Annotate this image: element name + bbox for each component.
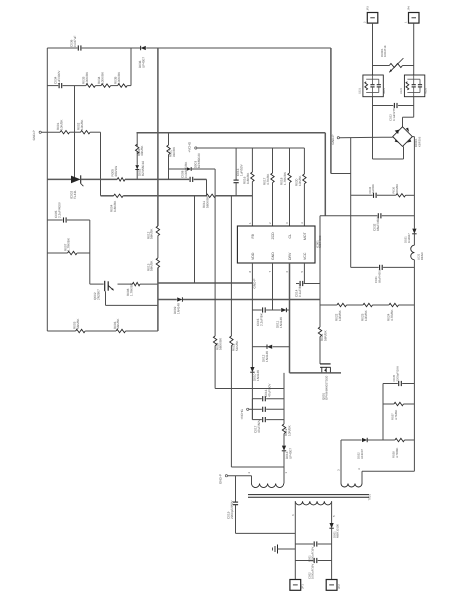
svg-text:1N4148: 1N4148: [279, 317, 283, 328]
wire: [405, 439, 415, 441]
wire: [74, 86, 76, 180]
resistor R008: [126, 282, 140, 296]
svg-text:1.78K/BK: 1.78K/BK: [129, 282, 133, 296]
resistor R035: [113, 71, 127, 87]
capacitor C017: [253, 407, 265, 433]
wire: [266, 419, 284, 421]
wire pin2 stub: [251, 476, 253, 484]
connector JP4: [405, 6, 419, 24]
shunt regulator IC002 TL431: [69, 175, 83, 199]
wire: [90, 283, 104, 285]
wire: [399, 304, 415, 306]
wire: [85, 330, 116, 332]
wire: [136, 152, 138, 165]
transformer T001 primary winding: [252, 484, 284, 488]
pin number 4 xfmr: [357, 468, 361, 470]
wire: [413, 106, 415, 118]
wire bulk row2: [351, 266, 379, 268]
wire GND row: [158, 282, 253, 284]
svg-text:2N2907: 2N2907: [97, 289, 101, 300]
svg-text:1N4148: 1N4148: [256, 370, 260, 381]
resistor R020: [295, 174, 307, 186]
resistor R011: [202, 194, 216, 208]
wire: [95, 85, 101, 87]
resistor R006: [113, 318, 126, 333]
pin number 2: [268, 222, 272, 224]
wire out cap row2: [295, 560, 313, 562]
wire: [82, 47, 141, 49]
resistor R007: [63, 237, 77, 255]
wire RC row: [351, 194, 373, 196]
transformer T001 secondary winding: [295, 501, 331, 505]
wire: [252, 419, 261, 421]
wire DC minus: [339, 136, 392, 139]
svg-text:100K/BK: 100K/BK: [100, 71, 104, 84]
zener diode D002: [135, 161, 144, 176]
capacitor C014: [294, 281, 302, 297]
wire: [127, 85, 131, 87]
pin number 3: [285, 222, 289, 224]
svg-text:68uF/450V: 68uF/450V: [377, 269, 381, 283]
wire: [249, 408, 262, 410]
svg-text:BZX55C20: BZX55C20: [197, 153, 201, 168]
svg-text:C021: C021: [358, 87, 361, 94]
capacitor C015: [256, 307, 265, 326]
wire: [236, 532, 296, 534]
resistor R024: [387, 303, 399, 321]
wire: [169, 168, 187, 170]
wire: [403, 146, 405, 159]
svg-text:1R0/BK: 1R0/BK: [395, 184, 399, 194]
wire: [118, 283, 133, 285]
resistor R021: [318, 327, 327, 341]
resistor R001: [56, 119, 70, 134]
wire: [319, 337, 321, 364]
svg-text:1N4937: 1N4937: [407, 233, 411, 243]
svg-text:GPA6NM60STD20: GPA6NM60STD20: [325, 375, 329, 400]
wire: [373, 158, 404, 160]
wire: [304, 283, 320, 285]
wire: [383, 266, 414, 268]
capacitor C033: [368, 184, 376, 198]
wire: [251, 372, 253, 420]
svg-text:JP1: JP1: [301, 584, 305, 589]
svg-text:2200pF/1KV: 2200pF/1KV: [395, 366, 399, 382]
pin number 1 xfmr: [284, 472, 288, 474]
svg-text:1uF/50V: 1uF/50V: [239, 163, 243, 176]
svg-text:6.8K/BK: 6.8K/BK: [246, 172, 250, 184]
resistor R014: [213, 336, 222, 350]
svg-text:47uF/50V: 47uF/50V: [267, 383, 271, 397]
wire varistor row: [373, 65, 390, 67]
wire: [228, 475, 252, 477]
svg-text:1uF/BK: 1uF/BK: [371, 184, 375, 193]
svg-text:560K/BK: 560K/BK: [219, 337, 223, 350]
diode D013: [282, 446, 293, 459]
wire: [398, 105, 414, 107]
wire pin4 line: [303, 148, 305, 174]
svg-text:C022: C022: [400, 87, 403, 94]
wire: [192, 168, 215, 170]
svg-text:FB: FB: [251, 233, 255, 238]
wire TL431 row: [47, 178, 71, 180]
capacitor C035: [392, 366, 401, 386]
svg-text:GND-P: GND-P: [253, 279, 257, 289]
wire: [194, 178, 207, 180]
svg-text:TL431: TL431: [73, 190, 77, 199]
svg-text:R026: R026: [424, 87, 427, 94]
wire: [283, 434, 285, 446]
wire pin6 line: [289, 263, 291, 373]
wire: [230, 346, 232, 467]
capacitor C031Y: [227, 499, 239, 519]
svg-text:6.8K/BK: 6.8K/BK: [113, 200, 117, 212]
wire GND-P row: [41, 131, 60, 133]
svg-text:KBP206: KBP206: [417, 136, 421, 147]
wire: [266, 408, 284, 410]
diode D010: [250, 367, 260, 381]
capacitor C032: [373, 213, 381, 231]
net label GND-P 2: [219, 474, 228, 484]
svg-text:JP2: JP2: [337, 584, 341, 589]
wire: [63, 85, 86, 87]
resistor R038: [392, 438, 405, 458]
svg-text:BEAD: BEAD: [420, 252, 424, 260]
net label +VCHG 2: [240, 408, 249, 420]
wire: [106, 304, 158, 306]
wire: [251, 182, 253, 226]
wire AC L: [372, 23, 374, 75]
pin number 5 xfmr: [332, 515, 336, 517]
wire: [206, 179, 208, 195]
wire: [214, 346, 216, 389]
wire: [368, 439, 395, 441]
op-amp U1 PWM controller IC001: [237, 226, 322, 263]
svg-text:56K/BK: 56K/BK: [150, 228, 154, 239]
resistor R037: [391, 402, 404, 420]
wire pin1 line: [251, 148, 253, 172]
diode D031: [403, 229, 416, 243]
wire: [287, 309, 290, 311]
svg-text:10K/BK: 10K/BK: [59, 119, 63, 130]
wire: [266, 398, 284, 400]
capacitor C018: [263, 417, 266, 422]
wire: [235, 148, 237, 180]
wire: [136, 170, 138, 180]
wire: [382, 215, 415, 217]
wire aux row: [341, 439, 362, 441]
svg-text:47uF/50V: 47uF/50V: [257, 419, 261, 433]
svg-text:4.7R/BK: 4.7R/BK: [390, 309, 394, 321]
svg-text:BZX55C16: BZX55C16: [141, 161, 145, 176]
wire: [413, 234, 415, 245]
connector JP2: [326, 580, 341, 591]
wire: [231, 466, 284, 468]
wire: [216, 195, 253, 197]
svg-text:51K/BK: 51K/BK: [235, 340, 239, 351]
wire: [278, 548, 296, 550]
wire: [413, 260, 415, 472]
wire: [406, 194, 415, 196]
svg-text:CL: CL: [288, 234, 292, 239]
svg-text:T001: T001: [368, 494, 372, 501]
svg-text:1.78K/BK: 1.78K/BK: [67, 237, 71, 251]
svg-text:DRV: DRV: [288, 252, 292, 260]
wire: [81, 178, 118, 180]
wire: [403, 116, 414, 118]
svg-text:910/BK: 910/BK: [172, 146, 176, 157]
wire: [125, 178, 189, 180]
resistor R006b: [136, 144, 145, 156]
wire: [157, 268, 159, 331]
wire top rail: [47, 47, 77, 49]
svg-text:ZCD: ZCD: [271, 232, 275, 240]
svg-text:4.7K/BK: 4.7K/BK: [394, 410, 398, 420]
capacitor C051: [307, 541, 317, 562]
svg-text:0.047uF: 0.047uF: [73, 36, 77, 47]
wire: [230, 196, 232, 336]
svg-text:2.2uF/400V: 2.2uF/400V: [57, 201, 61, 218]
filter block Z001: [358, 75, 386, 97]
wire: [266, 309, 281, 311]
wire: [168, 155, 170, 180]
svg-text:UF4007: UF4007: [288, 448, 292, 459]
wire out cap row1: [295, 543, 313, 545]
wire HV rail: [413, 137, 415, 229]
pin number 6 xfmr: [291, 514, 295, 516]
net label +VCHG: [187, 141, 197, 152]
svg-text:56K/BK: 56K/BK: [116, 318, 120, 329]
wire: [194, 196, 196, 283]
svg-text:4.7R/BK: 4.7R/BK: [395, 447, 399, 458]
resistor R016: [243, 172, 255, 184]
wire: [214, 169, 216, 336]
zener diode D003: [187, 153, 201, 171]
wire: [215, 388, 284, 390]
wire: [168, 133, 170, 145]
wire pin2 line: [272, 148, 274, 173]
capacitor C016: [263, 383, 272, 402]
resistor R019: [282, 424, 291, 436]
wire: [67, 219, 90, 221]
wire pin5 line: [303, 263, 305, 284]
svg-text:1N4148: 1N4148: [265, 351, 269, 362]
wire: [318, 543, 332, 545]
capacitor C023: [389, 103, 397, 121]
wire VCC row: [296, 283, 299, 285]
net label GND-P: [32, 130, 41, 140]
net label GND-P bridge: [331, 135, 340, 145]
wire: [252, 398, 261, 400]
wire gate line: [319, 216, 321, 327]
resistor R004: [110, 194, 124, 212]
svg-text:2200pF/250V: 2200pF/250V: [230, 499, 234, 519]
resistor R036: [392, 184, 406, 197]
svg-text:+VCHG: +VCHG: [240, 408, 244, 419]
pin number 3 xfmr: [337, 469, 341, 471]
wire pin3 line: [289, 148, 291, 173]
pin number 4: [300, 222, 304, 224]
svg-text:GND: GND: [271, 252, 275, 260]
svg-text:10K/BK: 10K/BK: [80, 119, 84, 130]
wire feedback bus: [157, 48, 159, 226]
wire: [331, 173, 351, 175]
wire pin7 line: [272, 263, 274, 310]
wire VCHG rail: [197, 147, 305, 149]
svg-text:R025: R025: [383, 87, 386, 94]
svg-text:560K/BK: 560K/BK: [205, 195, 209, 208]
resistor R002: [77, 119, 91, 134]
wire HV mid rail: [137, 132, 326, 134]
diode D032: [356, 438, 367, 459]
wire: [324, 133, 326, 216]
wire: [47, 330, 75, 332]
wire: [373, 304, 389, 306]
wire: [90, 131, 100, 133]
svg-text:JP3: JP3: [366, 6, 369, 11]
capacitor C052: [307, 558, 317, 579]
wire: [383, 383, 398, 385]
inductor L031: [411, 245, 424, 260]
pin number 7: [268, 271, 272, 273]
svg-text:JP4: JP4: [408, 6, 411, 11]
wire: [331, 528, 333, 579]
wire FB row: [101, 195, 114, 197]
transformer T001 core: [248, 494, 372, 501]
resistor R034: [97, 71, 111, 87]
capacitor C008: [180, 161, 192, 182]
resistor R003: [72, 318, 85, 333]
wire bus row: [158, 299, 177, 301]
svg-text:1000uF/16V: 1000uF/16V: [311, 564, 315, 579]
svg-text:+VCHG: +VCHG: [187, 141, 191, 152]
wire pin8 line: [251, 263, 253, 367]
connector JP3: [363, 6, 377, 24]
wire aux pin3: [340, 440, 342, 484]
wire: [136, 133, 138, 146]
svg-text:100K/BK: 100K/BK: [117, 71, 121, 84]
diode D009: [173, 297, 182, 314]
wire pin7 row: [252, 309, 261, 311]
wire: [402, 383, 414, 385]
wire: [140, 283, 158, 285]
svg-text:1.78K/BK: 1.78K/BK: [283, 171, 287, 185]
pin number 6: [285, 271, 289, 273]
resistor R033: [82, 71, 96, 87]
capacitor C031b: [374, 265, 382, 283]
wire AC N: [413, 23, 415, 75]
svg-text:0.1uF/BK: 0.1uF/BK: [298, 283, 302, 297]
svg-text:2.2uF/BK: 2.2uF/BK: [259, 312, 263, 326]
resistor R005: [110, 166, 125, 181]
wire: [283, 451, 285, 484]
svg-text:10R/BK: 10R/BK: [338, 309, 342, 321]
svg-text:UF4007: UF4007: [360, 449, 364, 459]
pin number 1: [248, 222, 252, 224]
svg-text:1uF/400V: 1uF/400V: [57, 70, 61, 84]
svg-text:10K/BK: 10K/BK: [298, 175, 302, 186]
wire X-cap row: [373, 105, 394, 107]
wire: [47, 219, 62, 221]
svg-text:MBR10100: MBR10100: [336, 524, 340, 538]
diode D011: [276, 308, 287, 328]
wire: [362, 470, 414, 472]
varistor RV001: [380, 45, 404, 72]
ground chassis: [273, 545, 278, 554]
resistor R017: [263, 173, 275, 185]
wire Y-cap line: [235, 476, 237, 502]
wire: [273, 346, 290, 348]
wire: [70, 131, 81, 133]
filter block Z002: [400, 75, 428, 97]
wire: [157, 236, 159, 258]
resistor R018: [280, 171, 292, 185]
wire: [402, 117, 404, 127]
pin number 2 xfmr: [247, 472, 251, 474]
svg-text:GND-P: GND-P: [32, 130, 36, 140]
svg-text:10R/BK: 10R/BK: [288, 424, 292, 436]
svg-text:0.1uF/275V: 0.1uF/275V: [392, 106, 396, 121]
bridge rectifier BD001: [393, 127, 422, 147]
wire: [100, 132, 102, 196]
svg-text:680/1W: 680/1W: [114, 166, 118, 177]
svg-text:10D471K: 10D471K: [383, 45, 387, 57]
wire: [47, 252, 67, 254]
wire: [382, 384, 384, 441]
resistor R012: [146, 226, 159, 239]
svg-text:4.7K/BK: 4.7K/BK: [266, 173, 270, 185]
wire left bus: [46, 48, 48, 331]
capacitor C005: [54, 201, 66, 223]
wire snubber row: [47, 85, 58, 87]
svg-text:VCC: VCC: [303, 252, 307, 260]
wire DC plus: [412, 136, 414, 138]
wire: [289, 183, 291, 226]
svg-text:1N4148: 1N4148: [176, 303, 180, 314]
transformer T001 aux winding: [341, 484, 362, 488]
capacitor C013: [234, 163, 244, 182]
diode D012: [261, 344, 272, 362]
pin number 5: [300, 271, 304, 273]
wire MOSFET row: [290, 372, 342, 374]
wire cap stack left: [251, 399, 253, 420]
resistor R013: [146, 258, 159, 271]
transistor Q001 MOSFET: [320, 364, 331, 400]
wire: [347, 304, 363, 306]
wire drain column: [283, 373, 285, 424]
diode D051: [329, 523, 339, 538]
wire: [377, 194, 396, 196]
svg-text:100K/BK: 100K/BK: [85, 71, 89, 84]
wire: [146, 47, 331, 49]
wire: [372, 97, 374, 159]
svg-text:56K/BK: 56K/BK: [76, 318, 80, 329]
wire sec left rail: [294, 501, 296, 579]
wire: [123, 195, 207, 197]
wire snub top: [330, 48, 332, 174]
wire: [320, 304, 337, 306]
resistor R022: [335, 303, 347, 321]
svg-text:10R/BK: 10R/BK: [364, 309, 368, 321]
wire: [413, 97, 415, 106]
svg-text:68uF/450V: 68uF/450V: [376, 215, 380, 231]
capacitor C036: [70, 36, 81, 51]
wire: [183, 299, 320, 301]
svg-text:GND-P: GND-P: [219, 474, 223, 484]
resistor R010: [167, 145, 176, 157]
wire: [77, 252, 90, 254]
resistor R015: [230, 336, 239, 351]
